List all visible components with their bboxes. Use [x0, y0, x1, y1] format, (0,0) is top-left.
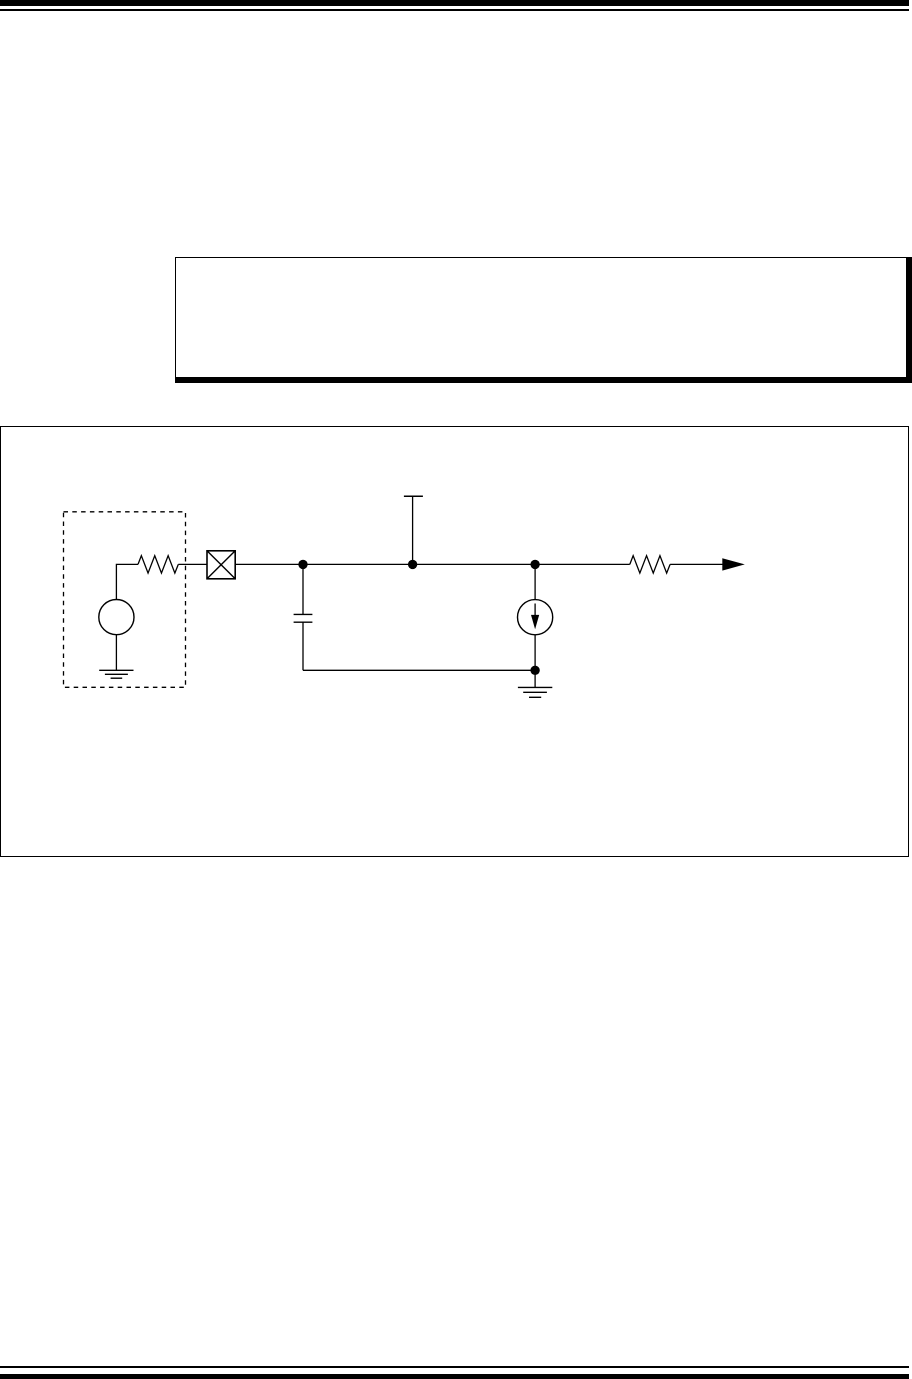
ground right: [518, 687, 552, 697]
wire R1 to mixer box: [178, 563, 207, 565]
wire node B to node C: [413, 563, 535, 565]
node B: [408, 560, 417, 569]
capacitor C1: [294, 564, 313, 670]
crossed-box element U1: [207, 551, 235, 579]
wire node C to R2: [535, 563, 630, 565]
wire node C to current source I1: [534, 564, 536, 599]
node C: [530, 560, 539, 569]
resistor R1: [138, 556, 178, 573]
wire capacitor bottom to node D: [303, 669, 535, 671]
resistor R2: [630, 556, 670, 573]
node A: [298, 560, 307, 569]
wire V1 bottom to ground: [115, 635, 117, 671]
wire node D to ground: [534, 670, 536, 687]
wire R2 to output arrow: [670, 563, 723, 565]
antenna terminal stub: [404, 496, 423, 564]
voltage source V1: [99, 600, 134, 635]
wire V1 top to corner to R1: [116, 564, 138, 599]
node D: [530, 666, 539, 675]
wire U1 to node A: [235, 563, 303, 565]
current source I1: [518, 600, 553, 635]
wire I1 to node D: [534, 635, 536, 671]
ground left: [99, 670, 133, 678]
output arrowhead: [722, 558, 745, 570]
source block dashed enclosure: [64, 512, 186, 688]
wire node A to node B: [303, 563, 413, 565]
